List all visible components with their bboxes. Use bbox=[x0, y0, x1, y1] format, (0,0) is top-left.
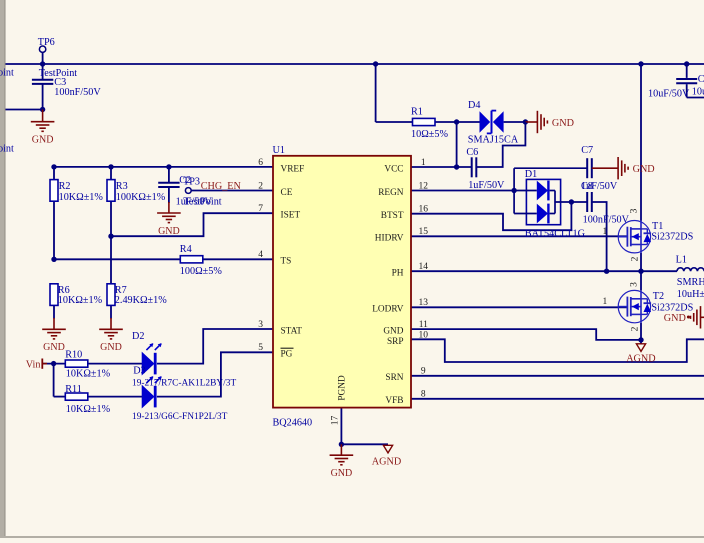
svg-text:12: 12 bbox=[419, 181, 429, 191]
svg-text:R1: R1 bbox=[411, 106, 423, 117]
wire PGND to AGND arrow bbox=[341, 443, 388, 445]
svg-text:T1: T1 bbox=[652, 221, 663, 232]
svg-text:2: 2 bbox=[631, 256, 641, 261]
capacitor C5 top right bbox=[676, 78, 697, 80]
svg-text:D3: D3 bbox=[133, 366, 145, 377]
wire R10 to D2 bbox=[88, 363, 142, 365]
wire LODRV to T2 gate bbox=[411, 306, 627, 308]
wire SRN rail bbox=[411, 375, 704, 377]
svg-text:14: 14 bbox=[419, 262, 429, 272]
node R2 top bbox=[51, 164, 56, 169]
svg-text:SRN: SRN bbox=[385, 373, 403, 383]
svg-text:BAT54CLT1G: BAT54CLT1G bbox=[525, 228, 586, 239]
svg-text:1uF/50V: 1uF/50V bbox=[581, 181, 618, 192]
svg-text:SMRH0: SMRH0 bbox=[677, 277, 704, 288]
svg-text:10KΩ±1%: 10KΩ±1% bbox=[66, 369, 111, 380]
svg-text:GND: GND bbox=[158, 226, 180, 237]
svg-text:BTST: BTST bbox=[381, 211, 404, 221]
wire T1 source to PH bbox=[640, 253, 642, 271]
svg-text:19-217/R7C-AK1L2BY/3T: 19-217/R7C-AK1L2BY/3T bbox=[132, 378, 236, 388]
svg-text:Vin: Vin bbox=[26, 359, 41, 370]
wire R6 stem bbox=[53, 305, 55, 318]
resistor R11 bbox=[65, 393, 88, 400]
wire R11 to D3 bbox=[88, 396, 142, 398]
svg-text:CHG_EN: CHG_EN bbox=[201, 181, 242, 192]
svg-text:10uH±2: 10uH±2 bbox=[677, 289, 704, 300]
svg-text:10KΩ±1%: 10KΩ±1% bbox=[59, 192, 104, 203]
wire bootstrap node to C8 bbox=[571, 201, 587, 203]
ground R7 GND bbox=[99, 328, 123, 330]
node PGND junction bbox=[339, 442, 344, 447]
svg-text:ISET: ISET bbox=[281, 211, 301, 221]
wire R2 top stem bbox=[53, 167, 55, 180]
svg-text:PH: PH bbox=[392, 269, 404, 279]
svg-text:R2: R2 bbox=[59, 181, 71, 192]
wire R3 bottom to ISET node bbox=[110, 201, 112, 236]
node C3 top junction bbox=[40, 61, 45, 66]
svg-text:AGND: AGND bbox=[626, 353, 655, 364]
svg-text:GND: GND bbox=[383, 326, 403, 336]
ground D4 GND bbox=[536, 111, 538, 133]
wire T2 source stem bbox=[640, 323, 642, 344]
resistor R6 bbox=[50, 284, 58, 306]
wire R1 branch down bbox=[375, 64, 377, 122]
wire C3 gnd stem bbox=[42, 110, 44, 122]
svg-text:D4: D4 bbox=[468, 100, 480, 111]
wire TP3 to CE pin bbox=[191, 190, 273, 192]
capacitor C3 bbox=[32, 79, 53, 81]
wire R7 stem bbox=[110, 305, 112, 318]
wire BTST net bbox=[411, 202, 571, 230]
svg-text:1: 1 bbox=[603, 227, 608, 237]
wire C6 right jog to D4 gnd node bbox=[477, 122, 526, 167]
svg-text:10KΩ±1%: 10KΩ±1% bbox=[58, 295, 103, 306]
wire HIDRV to T1 gate bbox=[411, 235, 627, 237]
tvs diode D4 bbox=[480, 111, 491, 132]
svg-text:R10: R10 bbox=[65, 349, 82, 360]
svg-text:TestPoint: TestPoint bbox=[0, 68, 14, 79]
svg-text:GND: GND bbox=[664, 313, 686, 324]
node C3 bottom junction bbox=[40, 107, 45, 112]
svg-text:GND: GND bbox=[552, 118, 574, 129]
svg-text:TS: TS bbox=[281, 257, 292, 267]
wire C2 top stem bbox=[168, 167, 170, 183]
capacitor C7 bbox=[586, 158, 588, 178]
svg-text:VREF: VREF bbox=[281, 164, 305, 174]
wire right gnd stub (battery side) bbox=[701, 316, 704, 318]
svg-text:D1: D1 bbox=[525, 169, 537, 180]
wire REGN to D1 bbox=[411, 190, 514, 192]
svg-text:16: 16 bbox=[419, 205, 429, 215]
bottom window edge strip bbox=[0, 536, 704, 538]
node T2 source junction bbox=[638, 337, 643, 342]
resistor R3 bbox=[107, 180, 115, 202]
node T1 drain top bbox=[638, 61, 643, 66]
node VCC junction bbox=[454, 164, 459, 169]
svg-text:3: 3 bbox=[630, 208, 640, 213]
node PH-T1 junction bbox=[638, 269, 643, 274]
wire left stub to C3 bottom bbox=[6, 109, 43, 111]
svg-text:2: 2 bbox=[258, 181, 263, 191]
node R3 top bbox=[108, 164, 113, 169]
wire D4 gnd stem bbox=[525, 121, 537, 123]
node D4 gnd junction bbox=[523, 119, 528, 124]
svg-text:U1: U1 bbox=[273, 145, 285, 156]
svg-text:10KΩ±1%: 10KΩ±1% bbox=[66, 404, 111, 415]
svg-text:SMAJ15CA: SMAJ15CA bbox=[468, 135, 519, 146]
left window edge strip bbox=[0, 0, 4, 538]
wire R4 right to TS pin bbox=[203, 258, 273, 260]
transistor T2 bbox=[618, 290, 650, 322]
svg-text:Si2372DS: Si2372DS bbox=[651, 232, 693, 243]
wire Vin to R10 bbox=[43, 363, 65, 365]
svg-text:CE: CE bbox=[281, 188, 293, 198]
wire PGND pin 17 bbox=[340, 408, 342, 445]
svg-text:7: 7 bbox=[258, 204, 263, 214]
wire TS to R4 left bbox=[54, 258, 180, 260]
wire C8 right jog down to PH bbox=[592, 202, 607, 271]
svg-text:D2: D2 bbox=[132, 331, 144, 342]
node R1-D4-VCC junction bbox=[454, 119, 459, 124]
ground PGND GND bbox=[330, 454, 354, 456]
svg-text:TestPoint: TestPoint bbox=[0, 143, 14, 154]
wire VCC pin to C6 bbox=[411, 166, 472, 168]
svg-text:GND: GND bbox=[633, 164, 655, 175]
resistor R4 bbox=[180, 256, 203, 263]
testpoint TP3 bbox=[185, 188, 191, 194]
resistor R1 bbox=[413, 118, 436, 125]
svg-text:10: 10 bbox=[419, 331, 429, 341]
testpoint TP6 bbox=[39, 46, 45, 52]
transistor T1 bbox=[618, 221, 650, 253]
svg-text:10uF/50V: 10uF/50V bbox=[648, 88, 690, 99]
svg-text:17: 17 bbox=[331, 416, 341, 426]
svg-text:10Ω±5%: 10Ω±5% bbox=[411, 129, 448, 140]
capacitor C8 bootstrap bbox=[586, 192, 588, 212]
svg-text:VFB: VFB bbox=[385, 396, 403, 406]
svg-text:C6: C6 bbox=[466, 147, 478, 158]
wire D4 right to gnd bbox=[504, 121, 526, 123]
svg-text:2: 2 bbox=[631, 326, 641, 331]
svg-text:19-213/G6C-FN1P2L/3T: 19-213/G6C-FN1P2L/3T bbox=[132, 412, 228, 422]
node ISET junction bbox=[108, 234, 113, 239]
node R1 branch bbox=[373, 61, 378, 66]
led D2 bbox=[142, 353, 154, 375]
resistor R7 bbox=[107, 284, 115, 306]
svg-text:1: 1 bbox=[421, 158, 426, 168]
wire VCC junction vertical bbox=[456, 122, 458, 167]
svg-text:TP6: TP6 bbox=[38, 37, 55, 48]
ground C7 GND bbox=[592, 167, 618, 169]
wire C3 branch vertical bbox=[42, 52, 44, 79]
capacitor C6 bbox=[471, 157, 473, 177]
wire C2 bottom stem bbox=[168, 187, 170, 203]
svg-text:10uF/50V: 10uF/50V bbox=[692, 86, 704, 97]
svg-text:HIDRV: HIDRV bbox=[375, 234, 404, 244]
node C2 top bbox=[166, 164, 171, 169]
wire T1 drain rail bbox=[640, 64, 642, 221]
ground C2 GND bbox=[157, 212, 181, 214]
wire D2 to STAT bbox=[157, 329, 273, 364]
node D1 anode junction bbox=[511, 188, 516, 193]
wire VFB rail bbox=[411, 398, 704, 400]
wire T2 drain from PH bbox=[640, 271, 642, 290]
svg-text:VCC: VCC bbox=[384, 164, 403, 174]
svg-text:T2: T2 bbox=[653, 291, 664, 302]
svg-text:TP3: TP3 bbox=[183, 177, 200, 188]
svg-text:3: 3 bbox=[258, 320, 263, 330]
svg-text:PGND: PGND bbox=[337, 375, 347, 401]
svg-text:100Ω±5%: 100Ω±5% bbox=[180, 266, 223, 277]
svg-text:STAT: STAT bbox=[281, 326, 303, 336]
diode D1 dual BAT54C bbox=[526, 179, 560, 224]
svg-text:TestPoint: TestPoint bbox=[183, 197, 222, 208]
svg-text:2.49KΩ±1%: 2.49KΩ±1% bbox=[115, 295, 167, 306]
svg-text:PG: PG bbox=[281, 350, 293, 360]
svg-text:GND: GND bbox=[32, 135, 54, 146]
svg-text:9: 9 bbox=[421, 367, 426, 377]
inductor L1 bbox=[677, 268, 704, 271]
svg-text:R4: R4 bbox=[180, 244, 192, 255]
wire R3 top stem bbox=[110, 167, 112, 180]
ground AGND at PGND bbox=[383, 445, 392, 453]
wire PGND gnd stem bbox=[340, 444, 342, 455]
svg-text:C5: C5 bbox=[698, 74, 704, 85]
wire PH rail bbox=[411, 270, 677, 272]
ground AGND below T2 bbox=[636, 344, 645, 352]
node C8-PH junction bbox=[604, 269, 609, 274]
resistor R2 bbox=[50, 180, 58, 202]
svg-text:100KΩ±1%: 100KΩ±1% bbox=[116, 192, 166, 203]
svg-text:100nF/50V: 100nF/50V bbox=[54, 87, 101, 98]
node TS junction bbox=[51, 257, 56, 262]
resistor R10 bbox=[65, 360, 88, 367]
svg-text:SRP: SRP bbox=[387, 337, 404, 347]
svg-text:LODRV: LODRV bbox=[372, 305, 404, 315]
svg-text:R3: R3 bbox=[116, 181, 128, 192]
svg-text:5: 5 bbox=[258, 343, 263, 353]
wire Vin down to R11 row bbox=[53, 364, 55, 397]
svg-text:11: 11 bbox=[419, 320, 428, 330]
wire VREF rail bbox=[54, 166, 273, 168]
wire R1 to D4 bbox=[435, 121, 480, 123]
svg-text:REGN: REGN bbox=[378, 188, 404, 198]
wire GND pin net bbox=[411, 329, 641, 340]
capacitor C2 bbox=[158, 182, 179, 184]
svg-text:1uF/50V: 1uF/50V bbox=[468, 180, 505, 191]
wire R2 bottom to TS node bbox=[53, 201, 55, 259]
svg-text:BQ24640: BQ24640 bbox=[273, 418, 313, 429]
svg-text:Si2372DS: Si2372DS bbox=[651, 302, 693, 313]
svg-text:3: 3 bbox=[630, 282, 640, 287]
wire D3 to PG bbox=[157, 352, 273, 396]
svg-text:8: 8 bbox=[421, 390, 426, 400]
wire to R1 bbox=[376, 121, 413, 123]
ground GND right of T2 bbox=[700, 306, 702, 328]
overline for PG bbox=[281, 347, 294, 349]
wire top input rail bbox=[6, 63, 704, 65]
wire ISET net bbox=[111, 213, 273, 236]
svg-text:GND: GND bbox=[331, 468, 353, 479]
svg-text:15: 15 bbox=[419, 227, 429, 237]
svg-text:6: 6 bbox=[258, 158, 263, 168]
port Vin bbox=[41, 359, 43, 369]
svg-text:100nF/50V: 100nF/50V bbox=[583, 214, 630, 225]
svg-text:1: 1 bbox=[603, 297, 608, 307]
wire top right cap branch bbox=[684, 61, 689, 66]
svg-text:C7: C7 bbox=[581, 145, 593, 156]
ground R6 GND bbox=[42, 328, 66, 330]
svg-text:AGND: AGND bbox=[372, 456, 401, 467]
svg-text:13: 13 bbox=[419, 298, 429, 308]
ground C3 GND bbox=[31, 121, 55, 123]
node Vin junction bbox=[51, 361, 56, 366]
svg-text:4: 4 bbox=[258, 250, 263, 260]
svg-text:GND: GND bbox=[100, 342, 122, 353]
svg-text:L1: L1 bbox=[676, 255, 687, 266]
svg-text:GND: GND bbox=[43, 342, 65, 353]
svg-text:R11: R11 bbox=[65, 384, 82, 395]
op-amp U1 BQ24640 body bbox=[273, 156, 411, 408]
wire R7 from ISET node bbox=[110, 236, 112, 284]
wire SRP net bbox=[411, 339, 704, 362]
led D3 bbox=[142, 386, 154, 408]
node bootstrap junction bbox=[569, 199, 574, 204]
